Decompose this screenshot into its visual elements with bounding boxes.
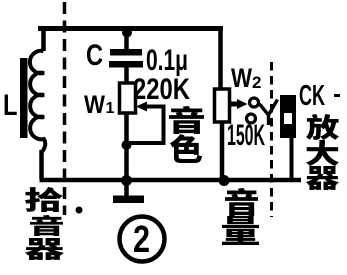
switch contact lower circle [247, 114, 256, 123]
label volume char liang [222, 216, 259, 245]
svg-text:W: W [84, 91, 105, 119]
W1 wiper arrowhead [136, 102, 147, 112]
wire W2 top lead [218, 26, 223, 90]
svg-text:150K: 150K [227, 119, 265, 152]
svg-text:CK: CK [299, 80, 325, 112]
label amplifier char da [306, 140, 339, 166]
label volume char yin [225, 188, 258, 216]
stray dot near left dashed line [76, 207, 83, 214]
capacitor C top plate [110, 49, 142, 56]
svg-text:220K: 220K [133, 73, 190, 106]
potentiometer W1 body [120, 83, 136, 113]
label pickup char yin [30, 215, 63, 236]
wire W2 bottom lead [220, 122, 225, 180]
inductor L coil [30, 51, 45, 152]
capacitor C bottom plate [109, 61, 143, 68]
label amplifier char qi [306, 166, 339, 190]
switch contact upper circle [250, 98, 259, 107]
wire jack sleeve lead to bottom bus [290, 138, 294, 180]
node W1 bottom bus junction [121, 175, 132, 186]
svg-text:C: C [86, 39, 103, 72]
label tone char yin [169, 106, 204, 134]
wire capacitor bottom lead to W1 [124, 67, 129, 86]
node junction of capacitor lead on top bus [122, 28, 132, 38]
svg-text:L: L [3, 89, 18, 122]
jack tip spring Y [260, 100, 278, 126]
ground bar [113, 196, 144, 204]
label tone char se [170, 134, 202, 163]
potentiometer W2 body [215, 89, 230, 122]
label pickup char qi [25, 238, 64, 260]
svg-text:W: W [231, 63, 252, 93]
tick mark right of CK [334, 94, 340, 97]
inductor core bar [20, 58, 28, 138]
node W1 loop junction [122, 140, 132, 150]
wire left vertical from top bus to coil [41, 26, 46, 51]
wire W1 bottom lead [124, 113, 129, 180]
svg-text:2: 2 [133, 219, 150, 261]
svg-text:1: 1 [106, 100, 115, 117]
wire coil bottom to bottom bus [39, 150, 44, 179]
W2 wiper arrowhead [237, 99, 248, 109]
wire capacitor top lead [124, 29, 129, 50]
boundary dashed line left (pickup) [63, 2, 67, 215]
jack CK insulator notch [284, 113, 292, 124]
node W2 bottom bus junction [219, 175, 230, 186]
label pickup char shi [25, 187, 63, 212]
boundary dashed line right (amplifier) [270, 62, 273, 217]
wire W1 wiper loop [127, 107, 164, 144]
ground stub [124, 182, 129, 196]
W2 wiper line [230, 102, 241, 107]
label amplifier char fang [306, 114, 339, 140]
wire bottom bus [40, 178, 302, 183]
wire top bus [38, 26, 223, 31]
jack CK body [280, 95, 296, 138]
figure number circle 2 [120, 217, 165, 262]
svg-text:2: 2 [252, 73, 261, 92]
